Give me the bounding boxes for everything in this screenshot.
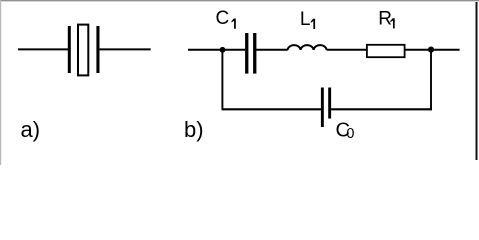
svg-text:R: R [378,9,392,30]
svg-text:b): b) [184,117,204,142]
svg-text:C: C [216,8,230,29]
svg-text:0: 0 [346,126,354,142]
svg-text:L: L [300,9,311,30]
svg-text:a): a) [21,117,41,142]
